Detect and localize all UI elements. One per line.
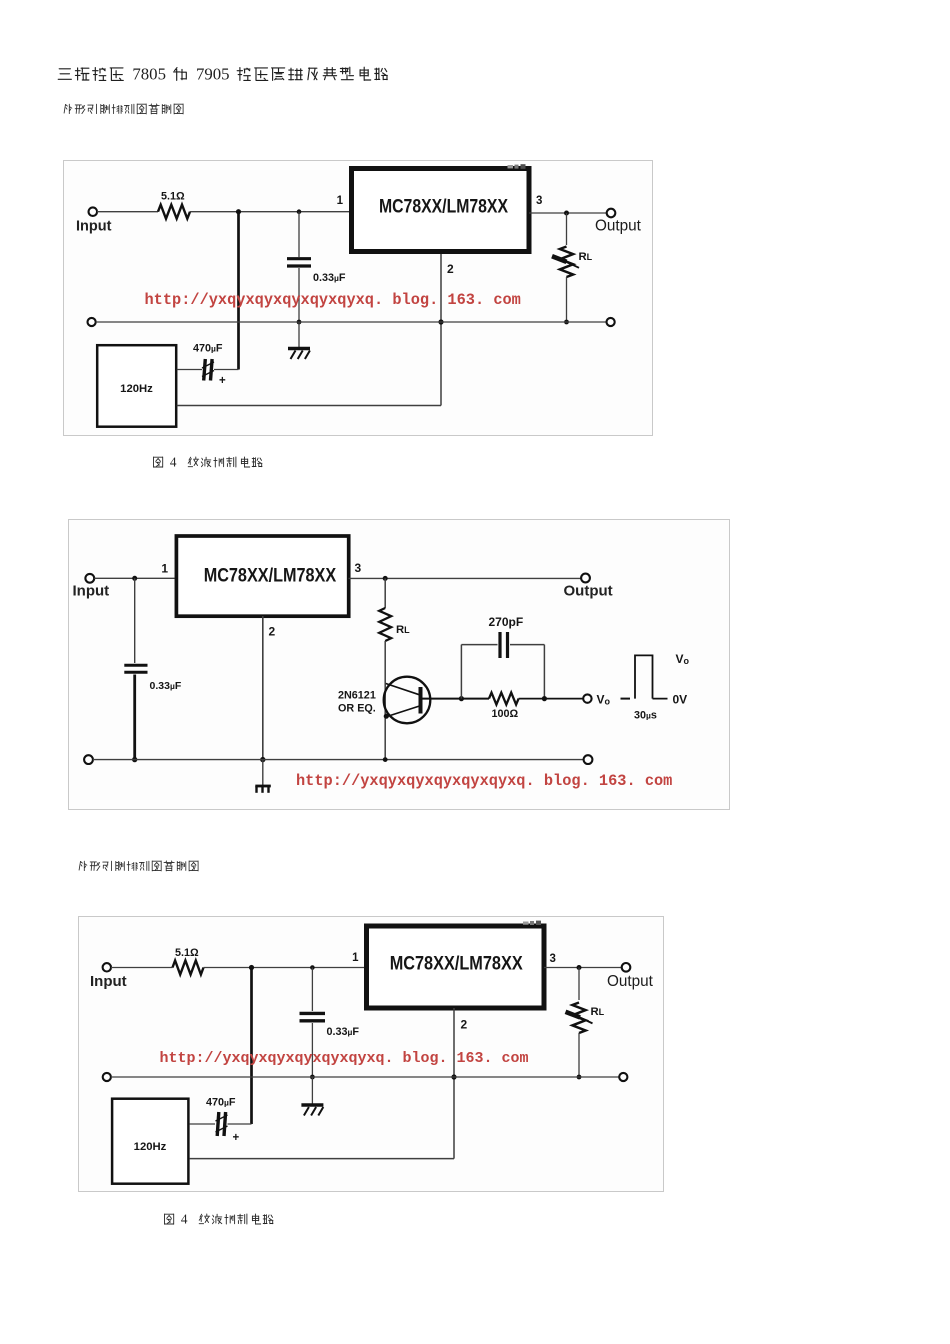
capacitor 0.33uF (3) lead	[311, 968, 313, 1012]
block 120Hz (3)	[112, 1099, 188, 1184]
svg-text:30µs: 30µs	[634, 710, 657, 722]
bottom rail terminal left	[88, 318, 96, 326]
wire RL3 top lead	[578, 968, 580, 1001]
bottom rail terminal right	[607, 318, 615, 326]
svg-text:3: 3	[550, 953, 556, 965]
svg-text:0.33µF: 0.33µF	[150, 680, 182, 692]
wire 270pF left vertical	[460, 645, 462, 699]
wire bottom rail	[96, 321, 607, 323]
wire pin2 vertical	[440, 254, 442, 406]
svg-text:Input: Input	[73, 583, 110, 600]
transistor base bar	[419, 687, 423, 714]
svg-text:1: 1	[352, 952, 359, 964]
svg-text:Output: Output	[607, 973, 654, 990]
wire pin2 vertical 2	[262, 616, 264, 760]
wire 120Hz to cap (3)	[190, 1123, 215, 1125]
node rail-cap (3)	[310, 1075, 315, 1080]
svg-text:MC78XX/LM78XX: MC78XX/LM78XX	[390, 953, 523, 974]
wire 120Hz to pin2	[177, 405, 441, 407]
svg-text:RL: RL	[579, 251, 593, 263]
svg-text:2: 2	[447, 262, 454, 276]
node junction rail-RL	[564, 320, 569, 325]
caption figure 4 (second)	[163, 1213, 293, 1228]
svg-text:Vo: Vo	[597, 693, 611, 707]
input terminal 3	[103, 963, 111, 971]
caption figure 4 (first)	[152, 456, 282, 471]
svg-text:470µF: 470µF	[206, 1097, 236, 1109]
svg-text:0.33µF: 0.33µF	[327, 1026, 360, 1038]
wire thick vertical (3)	[250, 968, 253, 1125]
svg-text:MC78XX/LM78XX: MC78XX/LM78XX	[379, 197, 508, 218]
wire RL2 to transistor/rail	[384, 641, 386, 760]
node junction RL top	[564, 211, 569, 216]
wire 120Hz to cap	[177, 369, 202, 371]
wire cap2 to rail thick	[133, 675, 136, 760]
terminal Vo	[583, 694, 591, 702]
node RL2 top	[383, 576, 388, 581]
ground 3	[301, 1103, 323, 1106]
svg-text:+: +	[219, 375, 226, 387]
svg-text:100Ω: 100Ω	[492, 708, 519, 720]
wire input to IC	[94, 577, 174, 579]
svg-text:Output: Output	[564, 583, 613, 600]
svg-text:5.1Ω: 5.1Ω	[175, 947, 199, 959]
svg-text:OR EQ.: OR EQ.	[338, 703, 376, 715]
node RL3 top	[577, 965, 582, 970]
capacitor 0.33uF (2) plates	[124, 664, 147, 667]
wire rail to ground	[298, 322, 300, 347]
wire pin2 vertical 3	[453, 1008, 455, 1159]
node rail-cap2	[132, 757, 137, 762]
wire resistor to IC (3)	[204, 967, 365, 969]
waveform pulse	[635, 655, 668, 698]
wire rail to ground (3)	[311, 1077, 313, 1104]
wire cap to vertical (3)	[228, 1123, 252, 1125]
wire 270pF top right	[510, 644, 544, 646]
node junction rail-pin2	[438, 319, 443, 324]
capacitor 0.33uF (3) plates	[300, 1012, 326, 1015]
svg-text:Vo: Vo	[676, 652, 690, 666]
scan area 3 background	[78, 916, 664, 1192]
subtitle 1	[62, 103, 242, 117]
box top smudge	[508, 165, 514, 168]
title text	[57, 66, 437, 86]
wire pin3 to output 2	[349, 577, 582, 579]
transistor emitter node	[384, 714, 389, 719]
svg-text:http://yxqyxqyxqyxqyxqyxq. blo: http://yxqyxqyxqyxqyxqyxq. blog. 163. co…	[160, 1050, 529, 1067]
transistor emitter stroke	[387, 706, 420, 717]
svg-text:1: 1	[337, 195, 344, 207]
svg-text:Input: Input	[76, 219, 112, 235]
capacitor 470uF (3)	[217, 1112, 219, 1136]
RL arrow	[552, 256, 567, 262]
node rail-RL3	[577, 1075, 582, 1080]
wire RL bottom lead	[566, 277, 568, 322]
svg-text:Input: Input	[90, 973, 127, 990]
input terminal	[89, 207, 98, 216]
svg-text:4: 4	[170, 455, 177, 470]
wire 270pF top left	[461, 644, 497, 646]
svg-text:RL: RL	[396, 624, 410, 636]
node junction cap top	[297, 209, 302, 214]
wire RL top lead	[566, 213, 568, 245]
node input junction	[132, 576, 137, 581]
svg-text:0V: 0V	[673, 693, 688, 707]
wire 100ohm to Vo	[519, 698, 583, 700]
wire resistor to IC pin1	[190, 211, 349, 213]
capacitor 0.33uF plates	[287, 257, 311, 260]
scan area 1 background	[63, 160, 653, 436]
svg-text:7905: 7905	[196, 64, 230, 83]
capacitor 470uF	[204, 359, 206, 381]
svg-text:1: 1	[161, 562, 168, 576]
wire cap to vertical	[214, 369, 239, 371]
bottom rail terminal left 2	[84, 755, 93, 764]
resistor 100ohm	[489, 693, 519, 705]
waveform baseline tick	[621, 698, 631, 700]
svg-text:2N6121: 2N6121	[338, 690, 376, 702]
bottom rail terminal right 3	[619, 1073, 627, 1081]
op-amp U3 box MC78XX/LM78XX	[367, 926, 545, 1008]
wire pin2 to ground	[262, 760, 264, 786]
transistor collector stroke	[386, 684, 420, 695]
op-amp U1 box MC78XX/LM78XX	[352, 169, 530, 252]
svg-text:470µF: 470µF	[193, 343, 223, 355]
svg-text:120Hz: 120Hz	[120, 383, 153, 395]
svg-text:5.1Ω: 5.1Ω	[161, 191, 185, 203]
svg-text:3: 3	[536, 195, 542, 207]
node rail-pin2 (2)	[260, 757, 265, 762]
node 270pF right	[542, 696, 547, 701]
svg-text:2: 2	[269, 625, 276, 639]
box top smudge 3	[523, 922, 529, 925]
wire RL2 top lead	[384, 578, 386, 608]
RL3 arrow	[566, 1012, 581, 1018]
input terminal 2	[85, 574, 94, 583]
wire input to resistor 3	[111, 967, 173, 969]
scan area 2 background	[68, 519, 730, 810]
capacitor 0.33uF lead	[298, 212, 300, 257]
svg-text:270pF: 270pF	[489, 615, 524, 629]
wire 270pF right vertical	[543, 645, 545, 699]
svg-text:http://yxqyxqyxqyxqyxqyxq. blo: http://yxqyxqyxqyxqyxqyxq. blog. 163. co…	[296, 772, 672, 790]
svg-text:120Hz: 120Hz	[134, 1141, 167, 1153]
bottom rail terminal left 3	[103, 1073, 111, 1081]
wire base to 100ohm	[421, 698, 490, 700]
svg-text:RL: RL	[591, 1006, 605, 1018]
resistor RL	[560, 247, 573, 278]
resistor RL3	[572, 1003, 585, 1034]
svg-text:3: 3	[355, 561, 362, 575]
wire bottom rail 3	[111, 1076, 619, 1078]
wire pin3 to output 3	[544, 967, 622, 969]
svg-text:http://yxqyxqyxqyxqyxqyxq. blo: http://yxqyxqyxqyxqyxqyxq. blog. 163. co…	[145, 291, 521, 309]
resistor RL2	[379, 608, 391, 641]
ground 2	[255, 785, 270, 788]
subtitle 2	[77, 860, 257, 874]
node rail-pin2 (3)	[451, 1074, 456, 1079]
svg-text:4: 4	[181, 1212, 188, 1227]
resistor 5.1ohm (3)	[173, 961, 204, 975]
wire cap to rail (3)	[311, 1023, 313, 1077]
output terminal 3	[622, 963, 631, 972]
output terminal 2	[581, 574, 590, 583]
wire input to resistor	[97, 211, 158, 213]
bottom rail terminal right 2	[584, 755, 593, 764]
node junction rail-cap	[297, 320, 302, 325]
svg-text:0.33µF: 0.33µF	[313, 272, 346, 284]
wire RL3 bottom lead	[578, 1033, 580, 1077]
resistor 5.1ohm	[158, 205, 190, 219]
node left vertical (3)	[249, 965, 254, 970]
block 120Hz	[97, 345, 176, 427]
op-amp U2 box MC78XX/LM78XX	[176, 536, 348, 616]
svg-text:2: 2	[461, 1018, 468, 1032]
node cap top (3)	[310, 965, 315, 970]
svg-text:7805: 7805	[132, 64, 166, 83]
wire thick vertical	[237, 212, 240, 370]
capacitor 270pF plates	[498, 632, 501, 658]
node junction left vertical	[236, 209, 241, 214]
wire pin3 to output	[529, 212, 607, 214]
wire input vertical	[134, 578, 136, 663]
node rail-transistor	[383, 757, 388, 762]
wire 120Hz to pin2 (3)	[190, 1158, 454, 1160]
svg-text:MC78XX/LM78XX: MC78XX/LM78XX	[204, 565, 337, 586]
output terminal	[607, 209, 616, 218]
ground	[288, 347, 310, 350]
node 270pF left	[459, 696, 464, 701]
transistor Q1 circle	[384, 677, 431, 724]
wire bottom rail 2	[93, 759, 584, 761]
svg-text:Output: Output	[595, 218, 642, 235]
svg-text:+: +	[233, 1132, 240, 1144]
wire cap to rail	[298, 268, 300, 322]
